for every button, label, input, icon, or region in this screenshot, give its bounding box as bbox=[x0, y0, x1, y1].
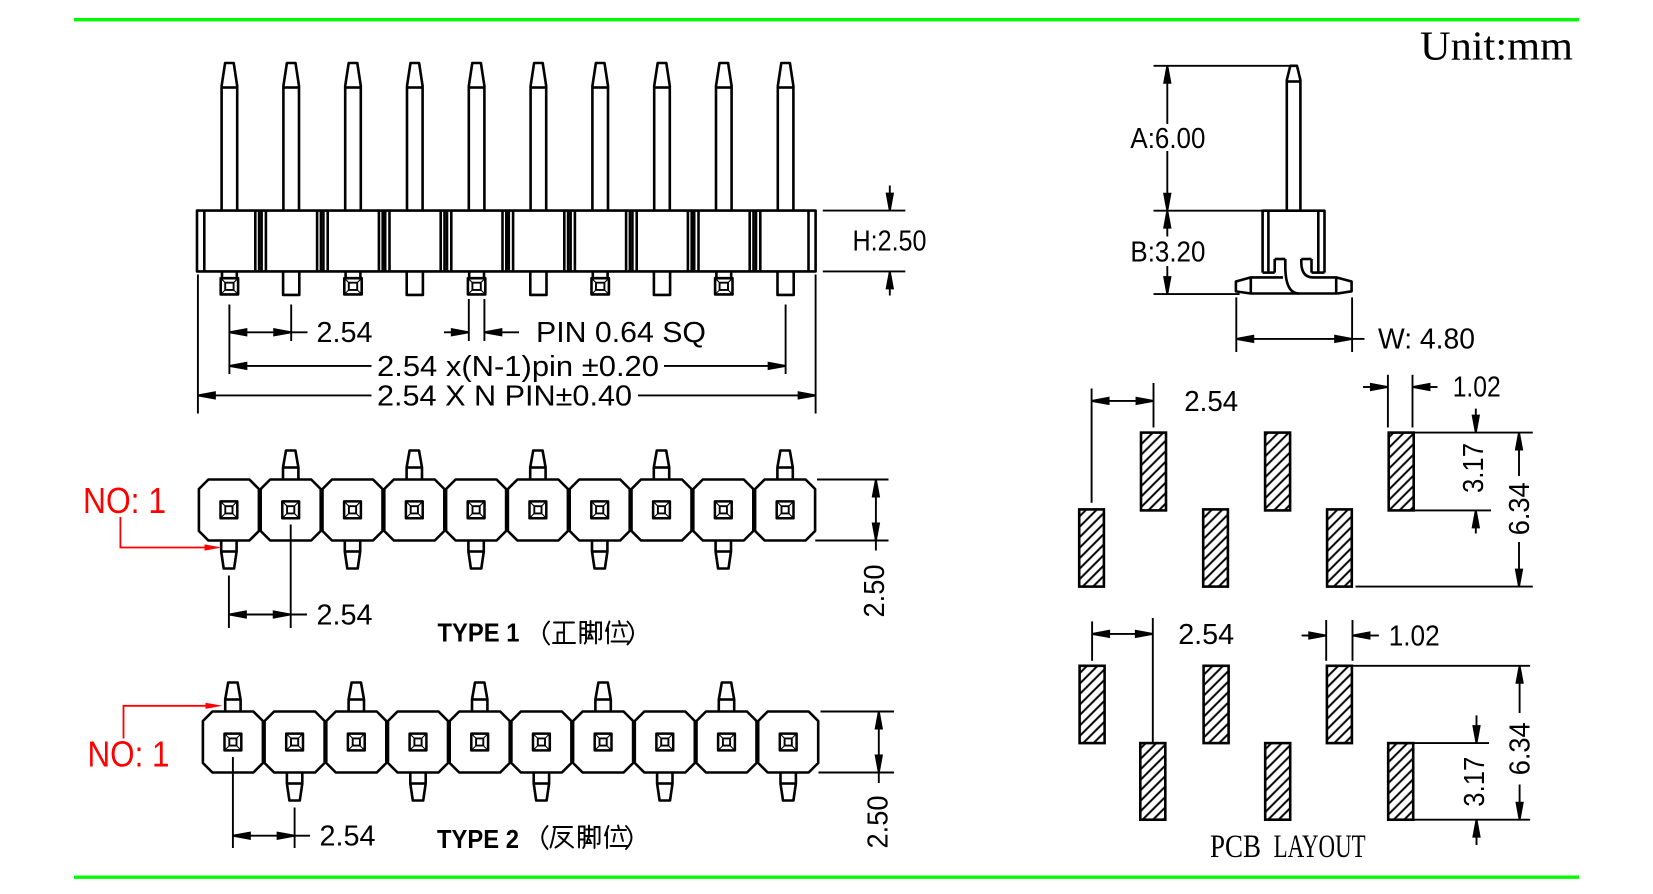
svg-text:2.54 X N PIN±0.40: 2.54 X N PIN±0.40 bbox=[377, 380, 632, 412]
front view: pin 2 shaft with chamfered tip bbox=[283, 63, 299, 211]
extension lines at pin 5 edges bbox=[469, 299, 485, 341]
svg-text:3.17: 3.17 bbox=[1458, 443, 1490, 493]
front view: pin 6 plain foot bbox=[530, 271, 546, 295]
TYPE 1: red leader line to pin 1 bbox=[120, 517, 221, 551]
TYPE 2: contact block pin 1 bbox=[203, 683, 263, 773]
svg-text:NO: 1: NO: 1 bbox=[83, 480, 166, 521]
side view: SMT gull-wing lead and foot bbox=[1236, 259, 1352, 294]
svg-text:H:2.50: H:2.50 bbox=[853, 226, 927, 258]
front view: pin 5 shaft with chamfered tip bbox=[469, 63, 485, 211]
PCB layout 1: pad 2 (upper row, hatched) bbox=[1141, 433, 1166, 511]
front view: pin 4 shaft with chamfered tip bbox=[407, 63, 423, 211]
svg-text:LAYOUT: LAYOUT bbox=[1274, 829, 1366, 865]
TYPE 1: dimension 2.50 height bbox=[815, 480, 888, 551]
front view: pin 7 shaft with chamfered tip bbox=[592, 63, 608, 211]
PCB layout 1: dimension 6.34 bbox=[1356, 433, 1533, 587]
dimension 2.54 X N PIN±0.40 bbox=[198, 392, 816, 398]
TYPE 2: dimension 2.54 bbox=[233, 757, 310, 848]
PCB layout 2: pad 6 (lower row, hatched) bbox=[1388, 743, 1413, 820]
TYPE 1: caption (正脚位） bbox=[544, 621, 633, 645]
TYPE 2: contact block pin 8 bbox=[635, 712, 695, 801]
front view: pin 5 SMT pad foot with nested squares bbox=[468, 271, 485, 294]
svg-text:PCB: PCB bbox=[1210, 829, 1261, 865]
PCB layout 1: pad 4 (upper row, hatched) bbox=[1265, 433, 1290, 511]
PCB layout 1: pad 1 (lower row, hatched) bbox=[1079, 509, 1104, 586]
TYPE 2: contact block pin 4 bbox=[388, 712, 448, 801]
dimension H:2.50 body height bbox=[823, 186, 906, 296]
svg-text:PIN 0.64 SQ: PIN 0.64 SQ bbox=[536, 317, 706, 349]
svg-text:Unit:mm: Unit:mm bbox=[1420, 23, 1573, 69]
side view: extension line at body top bbox=[1154, 210, 1263, 212]
svg-text:W: 4.80: W: 4.80 bbox=[1378, 323, 1475, 355]
front view: pin 1 SMT pad foot with nested squares bbox=[221, 271, 238, 294]
svg-text:2.54: 2.54 bbox=[1184, 386, 1238, 418]
front view: pin 3 SMT pad foot with nested squares bbox=[344, 271, 361, 294]
TYPE 1: contact block pin 8 bbox=[632, 451, 692, 541]
TYPE 1: contact block pin 3 bbox=[323, 480, 383, 569]
TYPE 1: contact block pin 1 bbox=[199, 480, 259, 569]
top green border line bbox=[74, 18, 1579, 21]
front view: pin 8 shaft with chamfered tip bbox=[654, 63, 670, 211]
svg-text:B:3.20: B:3.20 bbox=[1130, 237, 1205, 269]
front view: pin 4 plain foot bbox=[407, 271, 423, 295]
PCB layout 2: dimension 1.02 bbox=[1302, 620, 1379, 661]
TYPE 1: contact block pin 6 bbox=[508, 451, 568, 541]
PCB layout 2: pad 1 (upper row, hatched) bbox=[1080, 666, 1105, 743]
TYPE 2: red leader line to pin 1 bbox=[124, 703, 223, 739]
PCB layout 1: dimension 3.17 bbox=[1414, 409, 1533, 534]
extension line at pin 1 center bbox=[228, 305, 230, 375]
extension line at body left edge bbox=[197, 275, 199, 414]
dimension 2.54 pin pitch (front view) bbox=[229, 329, 307, 335]
side view: dimension A:6.00 bbox=[1164, 66, 1170, 211]
svg-text:3.17: 3.17 bbox=[1459, 757, 1491, 807]
TYPE 1: contact block pin 9 bbox=[693, 480, 753, 569]
svg-text:2.54: 2.54 bbox=[317, 317, 373, 349]
TYPE 2: caption (反脚位） bbox=[542, 826, 631, 850]
side view: extension line at pin tip bbox=[1154, 65, 1297, 67]
PCB layout 2: pad 5 (upper row, hatched) bbox=[1327, 666, 1352, 743]
front view: body segment separator lines bbox=[255, 211, 760, 272]
side view: dimension W: 4.80 bbox=[1236, 297, 1364, 352]
extension line at pin 2 center bbox=[290, 305, 292, 342]
front view: pin 10 plain foot bbox=[778, 271, 794, 295]
PCB layout 2: pad 2 (lower row, hatched) bbox=[1140, 743, 1165, 820]
side view: dimension B:3.20 bbox=[1164, 211, 1170, 294]
TYPE 1: dimension 2.54 bbox=[229, 525, 307, 629]
svg-text:1.02: 1.02 bbox=[1389, 621, 1440, 653]
svg-text:2.54: 2.54 bbox=[320, 821, 376, 853]
side view: pin shaft with chamfered tip bbox=[1287, 66, 1301, 211]
PCB layout 2: dimension 3.17 bbox=[1413, 715, 1530, 845]
front view: pin 8 plain foot bbox=[654, 271, 670, 295]
TYPE 2: contact block pin 2 bbox=[265, 712, 325, 801]
side view: extension line at foot bottom bbox=[1154, 293, 1240, 295]
TYPE 1: contact block pin 5 bbox=[446, 480, 506, 569]
TYPE 1: contact block pin 2 bbox=[261, 451, 321, 541]
TYPE 1: contact block pin 7 bbox=[570, 480, 630, 569]
front view: pin 6 shaft with chamfered tip bbox=[531, 63, 547, 211]
TYPE 2: contact block pin 7 bbox=[573, 683, 633, 773]
svg-text:6.34: 6.34 bbox=[1505, 722, 1537, 775]
PCB layout 1: dimension 1.02 bbox=[1363, 375, 1438, 428]
extension line at pin 10 center bbox=[785, 305, 787, 375]
front view: pin 9 shaft with chamfered tip bbox=[716, 63, 732, 211]
front view: pin 1 shaft with chamfered tip bbox=[222, 63, 238, 211]
PCB layout 2: dimension 2.54 bbox=[1092, 618, 1153, 743]
front view: pin 2 plain foot bbox=[283, 271, 299, 295]
extension line at body right edge bbox=[815, 275, 817, 414]
TYPE 2: contact block pin 5 bbox=[450, 683, 510, 773]
svg-text:2.50: 2.50 bbox=[862, 796, 894, 849]
svg-text:2.54: 2.54 bbox=[317, 600, 373, 632]
TYPE 2: contact block pin 10 bbox=[758, 712, 818, 801]
bottom green border line bbox=[74, 876, 1579, 879]
TYPE 2: contact block pin 6 bbox=[511, 712, 571, 801]
PCB layout 1: pad 3 (lower row, hatched) bbox=[1203, 509, 1228, 586]
svg-text:TYPE 1: TYPE 1 bbox=[438, 618, 520, 648]
svg-text:6.34: 6.34 bbox=[1504, 482, 1536, 535]
svg-text:TYPE 2: TYPE 2 bbox=[437, 824, 519, 854]
front view: pin 3 shaft with chamfered tip bbox=[345, 63, 361, 211]
svg-text:2.54: 2.54 bbox=[1178, 619, 1234, 651]
PCB layout 1: pad 5 (lower row, hatched) bbox=[1327, 509, 1352, 586]
side view: insulator body block bbox=[1263, 211, 1325, 273]
TYPE 2: contact block pin 3 bbox=[326, 683, 386, 773]
front view: pin 10 shaft with chamfered tip bbox=[778, 63, 794, 211]
TYPE 2: contact block pin 9 bbox=[697, 683, 757, 773]
svg-text:A:6.00: A:6.00 bbox=[1130, 123, 1205, 155]
svg-text:1.02: 1.02 bbox=[1453, 372, 1501, 404]
dimension PIN 0.64 SQ bbox=[444, 329, 519, 335]
dimension 2.54 x(N-1)pin ±0.20 bbox=[229, 363, 785, 369]
PCB layout 1: pad 6 (upper row, hatched) bbox=[1389, 433, 1414, 511]
front view: pin 7 SMT pad foot with nested squares bbox=[592, 271, 609, 294]
PCB layout 2: pad 3 (upper row, hatched) bbox=[1204, 666, 1229, 743]
svg-text:NO: 1: NO: 1 bbox=[88, 734, 170, 775]
PCB layout 1: dimension 2.54 bbox=[1092, 383, 1154, 503]
svg-text:2.54 x(N-1)pin ±0.20: 2.54 x(N-1)pin ±0.20 bbox=[377, 351, 659, 383]
front view: insulator body band bbox=[197, 211, 816, 272]
front view: pin 9 SMT pad foot with nested squares bbox=[715, 271, 732, 294]
PCB layout 2: dimension 6.34 bbox=[1353, 666, 1531, 820]
svg-text:2.50: 2.50 bbox=[859, 565, 891, 618]
TYPE 2: dimension 2.50 height bbox=[819, 712, 895, 784]
TYPE 1: contact block pin 10 bbox=[755, 451, 815, 541]
TYPE 1: contact block pin 4 bbox=[384, 451, 444, 541]
PCB layout 2: pad 4 (lower row, hatched) bbox=[1265, 743, 1290, 820]
